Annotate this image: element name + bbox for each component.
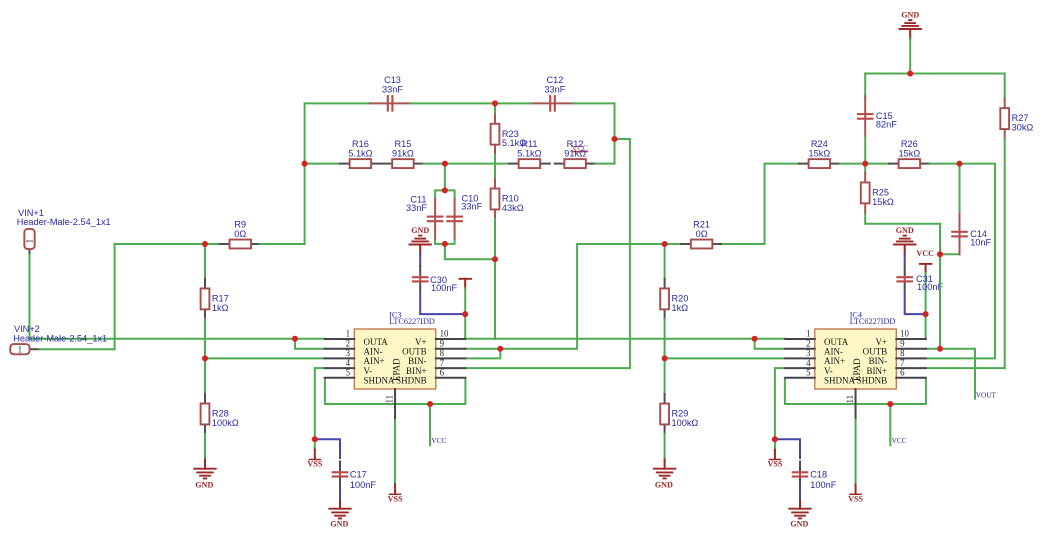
wire long V+ row to IC4 OUTA node: [495, 338, 755, 340]
svg-text:C17: C17: [350, 470, 367, 480]
svg-text:11: 11: [845, 395, 855, 404]
wire R20 column from node O: [664, 244, 666, 279]
wire IC4 EPAD to VSS: [855, 418, 857, 485]
wire R21 right up to R24 row: [722, 164, 799, 244]
wire node G down-right to node H: [445, 244, 495, 259]
wire C11/C10 top bracket: [435, 190, 455, 198]
node Y: SHDN/VCC junction stage2: [887, 401, 893, 407]
svg-text:VCC: VCC: [916, 249, 934, 258]
wire VCC to node I: [464, 288, 466, 314]
svg-text:4: 4: [346, 358, 351, 368]
wire R27 down to BIN+ row: [1004, 138, 1006, 368]
svg-text:10: 10: [900, 329, 909, 339]
svg-text:33nF: 33nF: [382, 84, 403, 94]
svg-text:Header-Male-2.54_1x1: Header-Male-2.54_1x1: [13, 333, 107, 343]
svg-text:V-: V-: [824, 366, 833, 376]
wire IC4 pin9 to node W: [926, 348, 940, 350]
resistor R10: [491, 179, 524, 219]
resistor R28: [201, 394, 239, 434]
svg-text:OUTB: OUTB: [402, 347, 427, 357]
wire R27 column top: [1004, 74, 1006, 99]
wire R12 right to riser: [596, 163, 615, 165]
svg-text:1: 1: [25, 239, 35, 243]
wire top row C13/C12: [305, 102, 370, 104]
svg-text:1kΩ: 1kΩ: [672, 303, 689, 313]
svg-text:EPAD: EPAD: [852, 358, 862, 381]
svg-text:V-: V-: [364, 366, 373, 376]
ground GND above C30: [410, 226, 431, 255]
node P: R20/R29/AIN+ junction: [662, 355, 668, 361]
wire blue node L to C17: [315, 439, 340, 459]
svg-text:5.1kΩ: 5.1kΩ: [348, 149, 372, 159]
wire node N jog to pin8 BIN-: [465, 349, 500, 359]
svg-text:GND: GND: [790, 519, 808, 528]
svg-text:15kΩ: 15kΩ: [899, 149, 921, 159]
svg-text:AIN-: AIN-: [364, 347, 383, 357]
connector VIN+1 wires: header down then right to OUTA/AIN- node: [30, 249, 296, 339]
power port VCC (stage 2): [916, 249, 934, 273]
wire R10 bottom to node H: [494, 219, 496, 260]
svg-text:7: 7: [440, 358, 445, 368]
wire node V to IC4 V+ pin10: [925, 314, 927, 339]
svg-text:BIN-: BIN-: [408, 356, 427, 366]
capacitor C31 100nF: [896, 265, 943, 293]
svg-text:91kΩ: 91kΩ: [564, 149, 586, 159]
wire from node D to BIN+ drop: [615, 138, 630, 140]
svg-text:0Ω: 0Ω: [234, 229, 246, 239]
node J: OUTA/AIN- junction: [292, 336, 298, 342]
wire top rail C15 to R27: [865, 73, 1005, 75]
wire node S to R26: [865, 163, 889, 165]
node T: R26/C14 junction: [957, 161, 963, 167]
svg-text:100nF: 100nF: [431, 283, 457, 293]
svg-text:1: 1: [806, 329, 810, 339]
node O: R21/R20 junction: [662, 241, 668, 247]
svg-text:R26: R26: [901, 139, 918, 149]
svg-text:1: 1: [18, 344, 22, 354]
svg-text:R21: R21: [693, 219, 710, 229]
capacitor C10: [446, 199, 463, 239]
svg-text:AIN+: AIN+: [364, 356, 385, 366]
wire C14 bottom stub: [959, 253, 961, 255]
wire R29 bottom to ground: [664, 434, 666, 460]
svg-text:8: 8: [900, 348, 905, 358]
svg-text:VIN+2: VIN+2: [14, 324, 40, 334]
resistor R12: [555, 139, 596, 168]
wire blue node X to C18: [775, 439, 800, 459]
wire node O to R21: [665, 243, 682, 245]
wire R24 to node S: [840, 163, 866, 165]
node W: OUTB/VOUT junction: [937, 346, 943, 352]
svg-text:15kΩ: 15kΩ: [872, 197, 894, 207]
svg-text:GND: GND: [901, 11, 919, 20]
wire R25 column from node S: [864, 164, 866, 173]
svg-text:AIN+: AIN+: [824, 356, 845, 366]
svg-text:VCC: VCC: [431, 436, 446, 445]
svg-text:EPAD: EPAD: [391, 358, 401, 381]
wire R28 bottom to ground: [204, 434, 206, 460]
svg-text:SHDNA: SHDNA: [364, 376, 396, 386]
resistor R27: [1000, 99, 1033, 139]
svg-text:BIN+: BIN+: [406, 366, 427, 376]
wire node Q jog to IC4 pin2: [755, 339, 785, 349]
svg-text:GND: GND: [896, 226, 914, 235]
svg-text:2: 2: [346, 338, 350, 348]
svg-text:OUTA: OUTA: [364, 337, 389, 347]
ground GND below C17: [329, 500, 350, 529]
wire GND down to top rail: [909, 38, 911, 73]
wire R20 to node P: [664, 319, 666, 359]
ground GND below R28: [194, 459, 215, 489]
svg-text:OUTB: OUTB: [863, 347, 888, 357]
svg-text:VSS: VSS: [307, 460, 322, 469]
svg-text:3: 3: [346, 348, 351, 358]
wire SHDNA/SHDNB U-path: [325, 378, 466, 404]
wire node I to V+ pin: [464, 314, 466, 339]
wire R17 column from node A: [204, 244, 206, 279]
wire R17 to node K: [204, 319, 206, 359]
wire left riser x=304.6: [304, 103, 306, 244]
wire OUTB pin9 to node N: [465, 348, 500, 350]
wire node H down to V+ row: [494, 259, 496, 339]
resistor R25: [861, 173, 894, 213]
wire BIN+ row IC4 pin7 to R27: [926, 367, 1005, 369]
power port VCC T (stage 1): [459, 279, 471, 288]
resistor R26: [889, 139, 930, 168]
svg-text:2: 2: [806, 338, 810, 348]
op-amp IC3 LTC6227IDD: [325, 311, 466, 418]
wire C15 column top: [864, 74, 866, 97]
ground GND below R29: [654, 459, 675, 489]
svg-text:LTC6227IDD: LTC6227IDD: [850, 317, 896, 326]
svg-text:15kΩ: 15kΩ: [809, 149, 831, 159]
svg-text:VCC: VCC: [892, 436, 907, 445]
svg-text:5: 5: [346, 368, 351, 378]
ground GND above C31: [894, 226, 915, 255]
net label VCC stub (stage1): [430, 404, 446, 445]
wire right riser x=614.5 down to R12: [614, 103, 616, 163]
svg-text:1kΩ: 1kΩ: [212, 303, 229, 313]
capacitor C12: [532, 75, 572, 112]
wire node N up-over to R21 row: [500, 244, 664, 349]
svg-text:AIN-: AIN-: [824, 347, 843, 357]
capacitor C30 100nF: [412, 265, 458, 293]
node F: bracket top junction: [442, 187, 448, 193]
wire R23-R10 mid (crosses R16 row): [494, 155, 496, 179]
wire BIN+ pin7 feedback up to node D: [465, 139, 630, 368]
wire node T right and down to BIN- pin8: [926, 164, 995, 359]
wire IC4 SHDNA/SHDNB U-path: [785, 378, 926, 404]
wire AIN+ row to pin3: [205, 357, 325, 359]
svg-text:GND: GND: [655, 481, 673, 490]
connector VIN+2 Header-Male-2.54_1x1: [10, 324, 107, 355]
wire EPAD to VSS: [394, 418, 396, 485]
capacitor C17 100nF: [332, 460, 377, 490]
node U: VCC/C14 junction: [937, 251, 943, 257]
power port VSS at node L: [314, 439, 316, 449]
node I: VCC/C30/V+ junction: [462, 311, 468, 317]
svg-text:10nF: 10nF: [970, 237, 991, 247]
svg-text:10: 10: [440, 329, 449, 339]
svg-text:8: 8: [440, 348, 445, 358]
resistor R24: [799, 139, 840, 168]
ground GND below C18: [789, 500, 810, 529]
svg-text:100nF: 100nF: [350, 480, 376, 490]
svg-text:9: 9: [900, 338, 905, 348]
resistor R20: [660, 279, 688, 319]
capacitor C18 100nF: [792, 460, 837, 490]
capacitor C15: [857, 96, 897, 136]
svg-text:91kΩ: 91kΩ: [392, 149, 414, 159]
wire C11/C10 bottom bracket: [435, 240, 455, 244]
connector VIN+2 wires: right then up to R9 row: [30, 244, 205, 349]
svg-text:33nF: 33nF: [544, 84, 565, 94]
op-amp IC4 LTC6227IDD: [785, 311, 926, 418]
node L: V-/VSS/C17 junction: [312, 436, 318, 442]
svg-text:SHDNA: SHDNA: [824, 376, 856, 386]
resistor R23: [491, 114, 527, 154]
svg-text:0Ω: 0Ω: [696, 229, 708, 239]
node E: R15/R11/C11-C10 junction: [442, 161, 448, 167]
wire blue C31 bottom to node V: [905, 293, 926, 314]
svg-text:33nF: 33nF: [461, 202, 482, 212]
svg-text:4: 4: [806, 358, 811, 368]
wire node J to pin1: [295, 338, 325, 340]
svg-text:BIN-: BIN-: [869, 356, 888, 366]
capacitor C14: [951, 214, 991, 254]
svg-text:R15: R15: [394, 139, 411, 149]
svg-text:VOUT: VOUT: [976, 391, 997, 400]
power port VSS below IC4 EPAD: [848, 484, 863, 503]
wire R15 to node E: [423, 163, 445, 165]
wire blue C30 bottom to node I: [420, 293, 465, 314]
svg-text:33nF: 33nF: [406, 203, 427, 213]
wire node E to R11 (crosses R23 column): [445, 163, 509, 165]
ground GND top right: [900, 11, 921, 39]
svg-text:3: 3: [806, 348, 811, 358]
resistor R29: [660, 394, 698, 434]
wire C14 column from node T: [959, 164, 961, 215]
svg-text:7: 7: [900, 358, 905, 368]
wire node K down to R28: [204, 358, 206, 394]
svg-text:5: 5: [806, 368, 811, 378]
node K: R17/R28/AIN+ junction: [202, 355, 208, 361]
wire R25 bottom over to VCC node: [865, 213, 940, 254]
svg-text:R24: R24: [811, 139, 828, 149]
wire AIN+ row to IC4 pin3: [665, 357, 785, 359]
power port VSS at node X: [774, 439, 776, 449]
node S: R24/R26/C15/R25 junction: [862, 161, 868, 167]
svg-text:V+: V+: [415, 337, 427, 347]
svg-text:5.1kΩ: 5.1kΩ: [502, 138, 526, 148]
node N: OUTB/BIN- junction: [497, 346, 503, 352]
wire node Q to IC4 pin1: [755, 338, 785, 340]
wire blue C18 bottom: [799, 488, 801, 500]
svg-text:6: 6: [440, 368, 445, 378]
node X: V-/VSS/C18 junction: [772, 436, 778, 442]
wire R16 row from node B: [305, 163, 340, 165]
svg-text:100kΩ: 100kΩ: [212, 418, 239, 428]
wire V- pin4 to VSS node: [315, 368, 325, 439]
svg-text:5.1kΩ: 5.1kΩ: [517, 149, 541, 159]
wire node P down to R29: [664, 358, 666, 394]
svg-text:1: 1: [346, 329, 350, 339]
wire V+ row to node H riser: [465, 338, 495, 340]
wire node U to C14 bottom: [940, 253, 960, 255]
capacitor C11: [427, 199, 444, 239]
capacitor C13: [370, 75, 410, 112]
svg-text:C18: C18: [810, 470, 827, 480]
wire C12 right: [573, 102, 614, 104]
wire VCC port down to node V: [925, 273, 927, 314]
svg-text:R9: R9: [234, 219, 246, 229]
node Q: IC4 OUTA/AIN- junction: [752, 336, 758, 342]
resistor R16: [340, 139, 381, 168]
svg-text:9: 9: [440, 338, 445, 348]
node C: C13/C12/R23 junction: [492, 100, 498, 106]
wire between C13 and R23 top: [410, 102, 531, 104]
wire node E down to C11/C10 bracket: [444, 164, 446, 191]
node A: VIN+2/R17 junction: [202, 241, 208, 247]
resistor R15: [383, 139, 424, 168]
wire blue GND to C30: [419, 255, 421, 266]
wire R9 right to riser: [260, 243, 305, 245]
node H: R10/bracket/V+ junction: [492, 256, 498, 262]
svg-text:V+: V+: [876, 337, 888, 347]
svg-text:100kΩ: 100kΩ: [672, 418, 699, 428]
wire R26 to node T: [930, 163, 960, 165]
svg-text:VSS: VSS: [388, 494, 403, 503]
svg-text:82nF: 82nF: [876, 120, 897, 130]
wire blue GND to C31: [904, 255, 906, 266]
wire node J jog to pin2 AIN-: [295, 339, 325, 349]
svg-text:GND: GND: [330, 519, 348, 528]
net label VCC stub (stage2): [890, 404, 906, 445]
svg-text:OUTA: OUTA: [824, 337, 849, 347]
svg-text:R12: R12: [567, 139, 584, 149]
power port VCC (overlapping R12 labels): [571, 144, 588, 153]
wire C15 bottom to R24 row: [864, 137, 866, 164]
resistor R17: [201, 279, 229, 319]
svg-text:11: 11: [385, 395, 395, 404]
power port VSS below EPAD: [388, 484, 403, 503]
node D: feedback junction x=614.5: [612, 136, 618, 142]
node R: GND/top-rail junction: [907, 71, 913, 77]
node M: SHDN/VCC junction: [427, 401, 433, 407]
svg-text:6: 6: [900, 368, 905, 378]
svg-text:43kΩ: 43kΩ: [502, 203, 524, 213]
svg-text:Header-Male-2.54_1x1: Header-Male-2.54_1x1: [17, 217, 111, 227]
resistor R21: [681, 219, 722, 248]
svg-text:BIN+: BIN+: [867, 366, 888, 376]
wire blue C17 bottom: [339, 488, 341, 500]
svg-text:R16: R16: [352, 139, 369, 149]
wire R23/R10 column top: [494, 103, 496, 114]
resistor R11: [509, 139, 550, 168]
svg-text:VSS: VSS: [767, 460, 782, 469]
resistor R9: [220, 219, 261, 248]
svg-text:30kΩ: 30kΩ: [1012, 123, 1034, 133]
node B: riser/R16 row junction: [302, 161, 308, 167]
svg-text:GND: GND: [195, 481, 213, 490]
connector VIN+1 Header-Male-2.54_1x1: [17, 208, 111, 249]
wire vertical VCC net x=940 to OUTB node: [939, 254, 941, 348]
wire IC4 V- pin4 to VSS node: [775, 368, 785, 439]
node G: bracket bottom junction: [442, 241, 448, 247]
svg-text:GND: GND: [411, 226, 429, 235]
node V: VCC/C31/V+ junction: [923, 311, 929, 317]
wire R9 row to resistor: [205, 243, 220, 245]
svg-text:LTC6227IDD: LTC6227IDD: [389, 317, 435, 326]
svg-text:VSS: VSS: [848, 494, 863, 503]
svg-text:100nF: 100nF: [810, 480, 836, 490]
wire node W to VOUT: [940, 349, 975, 400]
